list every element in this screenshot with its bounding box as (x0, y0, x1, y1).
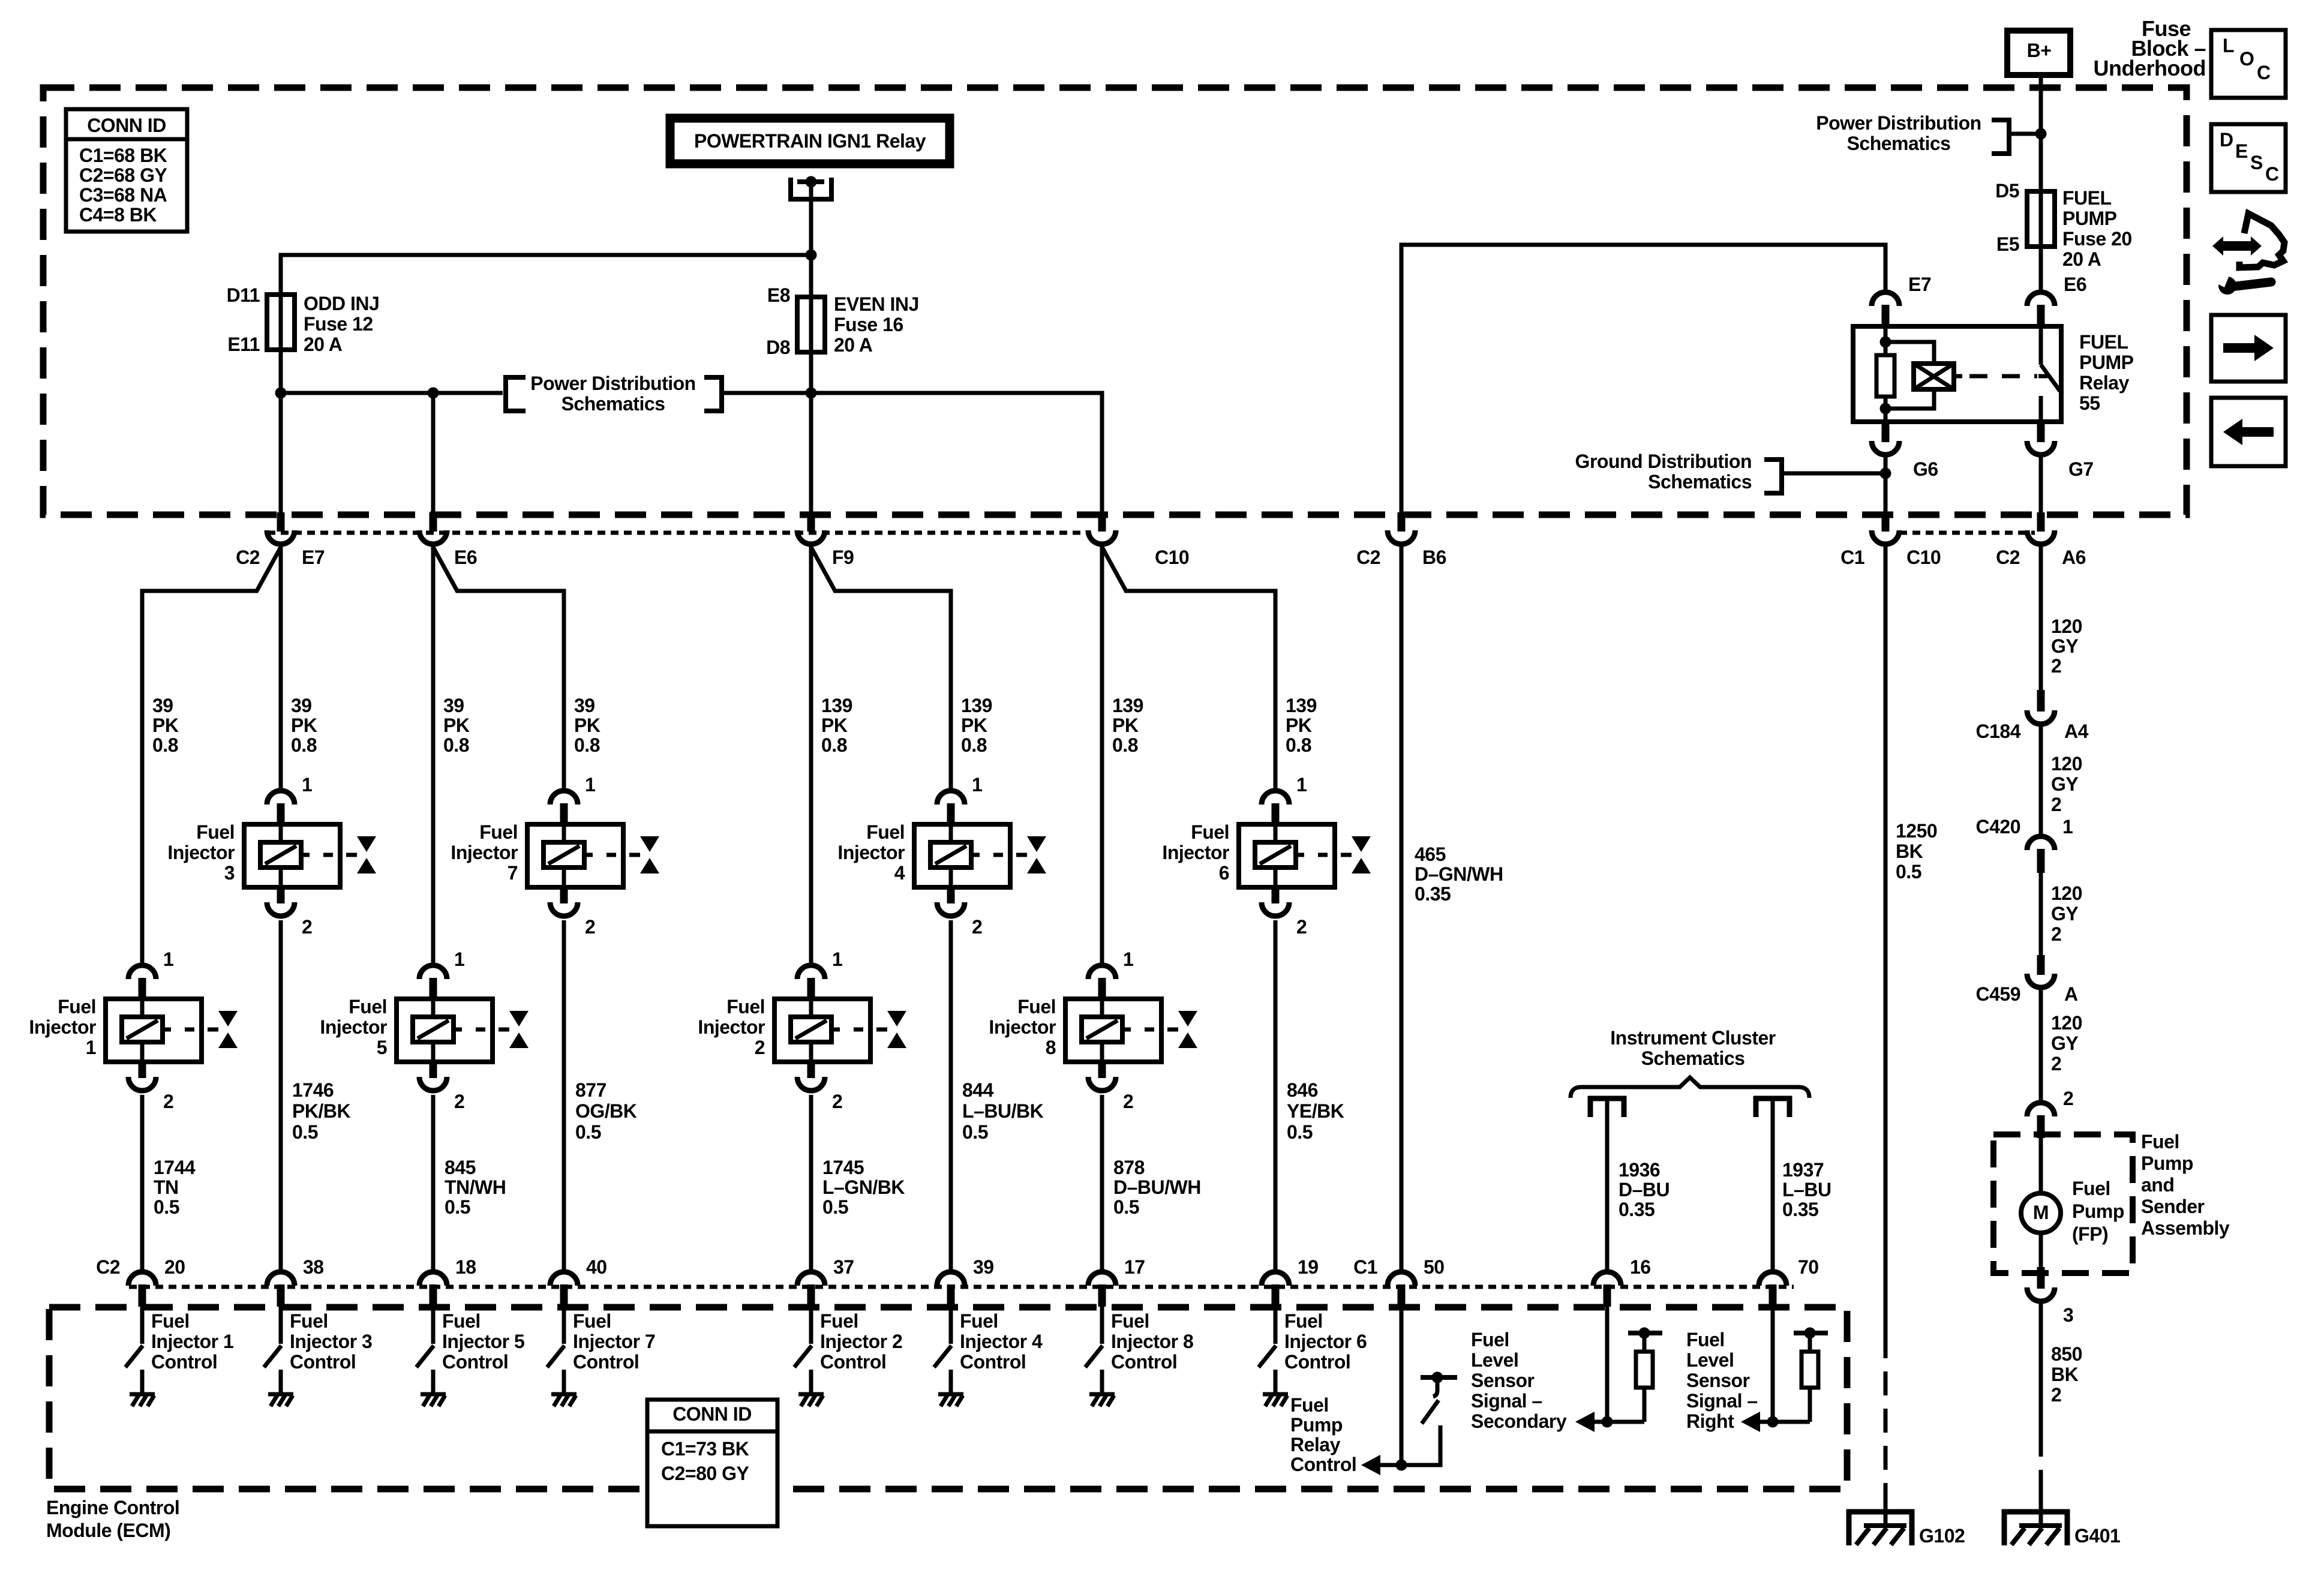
svg-text:0.5: 0.5 (154, 1196, 179, 1218)
svg-text:Injector 8: Injector 8 (1111, 1331, 1193, 1352)
wire A6 down (2039, 546, 2043, 691)
svg-text:C1=73 BK: C1=73 BK (661, 1438, 749, 1460)
connector C184 (2037, 690, 2045, 712)
svg-text:0.5: 0.5 (292, 1121, 318, 1143)
connector E6 (relay) (2027, 292, 2055, 306)
svg-text:846: 846 (1287, 1079, 1318, 1101)
svg-text:FUEL: FUEL (2062, 187, 2112, 209)
node ground distribution tap (1880, 468, 1891, 479)
svg-text:PK: PK (1286, 715, 1312, 736)
svg-text:0.8: 0.8 (1112, 734, 1138, 756)
svg-text:20 A: 20 A (304, 334, 343, 355)
svg-text:2: 2 (1123, 1091, 1133, 1112)
node E7 branch (275, 388, 287, 399)
switch: Fuel Injector 3 Control driver (279, 1307, 283, 1344)
svg-text:C459: C459 (1976, 983, 2021, 1005)
svg-text:POWERTRAIN IGN1 Relay: POWERTRAIN IGN1 Relay (694, 130, 926, 152)
svg-text:3: 3 (2063, 1304, 2073, 1326)
svg-text:0.8: 0.8 (152, 734, 178, 756)
svg-text:C2: C2 (236, 547, 260, 568)
svg-text:L–BU: L–BU (1782, 1179, 1831, 1200)
injector: Fuel Injector 7 (550, 791, 578, 804)
svg-text:D5: D5 (1995, 180, 2019, 202)
svg-text:Fuel: Fuel (290, 1310, 328, 1332)
svg-text:18: 18 (455, 1256, 476, 1278)
svg-text:Ground Distribution: Ground Distribution (1575, 451, 1752, 472)
switch: Fuel Injector 4 Control driver (949, 1307, 953, 1344)
svg-text:39: 39 (443, 695, 464, 716)
POWERTRAIN IGN1 Relay callout box (670, 118, 950, 164)
svg-text:39: 39 (574, 695, 595, 716)
svg-text:2: 2 (972, 916, 982, 938)
svg-text:CONN ID: CONN ID (87, 115, 166, 136)
wire to ECM (1771, 1101, 1775, 1274)
switch: Fuel Injector 7 Control driver (562, 1307, 566, 1344)
svg-text:Injector: Injector (1162, 842, 1229, 863)
svg-text:Engine Control: Engine Control (46, 1497, 179, 1518)
svg-text:PK: PK (152, 715, 179, 736)
svg-text:Fuel: Fuel (58, 996, 96, 1017)
svg-text:2: 2 (2051, 923, 2061, 945)
svg-text:PK/BK: PK/BK (292, 1100, 350, 1122)
svg-text:139: 139 (1286, 695, 1317, 716)
svg-text:Control: Control (1284, 1351, 1350, 1373)
relay switch (2039, 326, 2043, 365)
svg-text:0.5: 0.5 (822, 1196, 848, 1218)
connector row dotted line (fuse block C2) (268, 531, 1087, 535)
svg-text:E11: E11 (227, 334, 260, 355)
svg-text:0.8: 0.8 (574, 734, 600, 756)
svg-text:Control: Control (442, 1351, 508, 1373)
wire pump to G401 (2039, 1302, 2043, 1433)
ECM pin 70 (1759, 1272, 1786, 1286)
wire E7 to injector 3 (279, 546, 283, 793)
svg-text:2: 2 (832, 1091, 842, 1112)
svg-text:(FP): (FP) (2072, 1223, 2108, 1245)
svg-text:OG/BK: OG/BK (575, 1100, 637, 1122)
connector B6 (fuse block exit) (1398, 512, 1406, 532)
svg-text:E6: E6 (454, 547, 477, 568)
connector A6 (fuse block exit) (2037, 512, 2045, 532)
svg-text:0.8: 0.8 (821, 734, 847, 756)
svg-text:Fuel: Fuel (960, 1310, 998, 1332)
svg-text:C: C (2257, 62, 2271, 83)
svg-text:1936: 1936 (1619, 1159, 1660, 1181)
battery feed B+ (2007, 31, 2070, 75)
svg-text:38: 38 (303, 1256, 324, 1278)
ECM pin 20 (128, 1272, 156, 1286)
ECM pin 37 (797, 1272, 825, 1286)
svg-text:Level: Level (1471, 1349, 1518, 1371)
svg-text:Fuel: Fuel (196, 821, 235, 843)
switch: Fuel Injector 8 Control driver (1100, 1307, 1104, 1344)
svg-text:TN/WH: TN/WH (445, 1176, 506, 1198)
svg-text:C4=8 BK: C4=8 BK (79, 204, 157, 226)
ECM pin 39 (937, 1272, 965, 1286)
svg-text:Fuse 12: Fuse 12 (304, 313, 373, 335)
svg-text:1744: 1744 (154, 1157, 196, 1178)
svg-text:0.35: 0.35 (1619, 1199, 1655, 1220)
svg-text:A: A (2064, 983, 2078, 1005)
svg-text:Fuel: Fuel (1111, 1310, 1149, 1332)
svg-text:Power Distribution: Power Distribution (1816, 112, 1981, 134)
injector: Fuel Injector 5 (419, 965, 447, 979)
svg-text:E6: E6 (2064, 274, 2086, 295)
svg-text:C1: C1 (1353, 1256, 1377, 1278)
svg-text:D8: D8 (766, 337, 790, 358)
ECM pin 19 (1262, 1272, 1289, 1286)
svg-text:Injector 6: Injector 6 (1284, 1331, 1367, 1352)
wire injector to ECM (1274, 920, 1278, 1274)
CONN ID table (ECM) (647, 1400, 777, 1526)
svg-text:3: 3 (224, 862, 235, 884)
icon back arrow (2211, 398, 2286, 466)
svg-text:Instrument Cluster: Instrument Cluster (1610, 1027, 1776, 1049)
svg-text:50: 50 (1424, 1256, 1445, 1278)
svg-text:2: 2 (2063, 1088, 2073, 1109)
motor: Fuel Pump (FP) (2021, 1193, 2061, 1233)
svg-text:Fuel: Fuel (1686, 1329, 1725, 1350)
svg-text:0.8: 0.8 (1286, 734, 1311, 756)
node F9 branch (806, 388, 817, 399)
connector C10 (fuse block exit) (1882, 512, 1890, 532)
svg-text:139: 139 (1112, 695, 1143, 716)
wire ODD INJ fuse feed (281, 255, 811, 295)
connector ('C10', 88) (fuse block exit) (1098, 512, 1106, 532)
ground G401 (2002, 1509, 2007, 1545)
ECM connector dotted line (129, 1285, 1794, 1289)
connector C459 (2037, 955, 2045, 975)
svg-text:845: 845 (445, 1157, 476, 1178)
svg-text:ODD INJ: ODD INJ (304, 293, 379, 314)
svg-text:Fuel: Fuel (2141, 1131, 2179, 1152)
svg-text:C2: C2 (1996, 547, 2020, 568)
wire B6 to ECM pin 50 (1400, 546, 1404, 1274)
wire to ECM (1605, 1101, 1610, 1274)
svg-text:Injector: Injector (320, 1016, 387, 1038)
wire G6 down (1884, 455, 1888, 515)
svg-text:120: 120 (2051, 882, 2082, 904)
svg-text:Power Distribution: Power Distribution (530, 373, 695, 394)
svg-text:20: 20 (164, 1256, 185, 1278)
svg-text:Sender: Sender (2141, 1196, 2205, 1217)
svg-text:Control: Control (1111, 1351, 1177, 1373)
wire (2039, 725, 2043, 839)
svg-text:1: 1 (585, 774, 595, 795)
svg-text:Control: Control (573, 1351, 639, 1373)
svg-text:Secondary: Secondary (1471, 1410, 1567, 1432)
svg-text:5: 5 (377, 1037, 387, 1058)
svg-text:B6: B6 (1422, 547, 1446, 568)
svg-text:39: 39 (291, 695, 312, 716)
svg-text:40: 40 (586, 1256, 607, 1278)
svg-text:120: 120 (2051, 753, 2082, 775)
injector: Fuel Injector 1 (128, 965, 156, 979)
svg-text:Relay: Relay (2079, 372, 2130, 394)
ground G102 (1846, 1509, 1852, 1545)
injector: Fuel Injector 4 (937, 791, 965, 804)
terminal (instrument cluster) (1753, 1096, 1792, 1101)
switch: Fuel Injector 6 Control driver (1274, 1307, 1278, 1344)
fuel pump relay control driver (1400, 1307, 1404, 1465)
wire B+ down (2039, 75, 2043, 294)
fuel level sensor pull-up (1771, 1307, 1775, 1422)
svg-text:2: 2 (1296, 916, 1307, 938)
svg-text:877: 877 (575, 1079, 606, 1101)
svg-text:8: 8 (1046, 1037, 1056, 1058)
svg-text:Control: Control (960, 1351, 1026, 1373)
svg-text:E8: E8 (767, 284, 790, 306)
wire output bus (left) (281, 391, 503, 395)
svg-text:Injector: Injector (29, 1016, 96, 1038)
svg-text:D–GN/WH: D–GN/WH (1415, 863, 1503, 885)
svg-text:120: 120 (2051, 616, 2082, 637)
svg-text:GY: GY (2051, 773, 2078, 795)
svg-text:C2: C2 (96, 1256, 120, 1278)
wire F9 branch to injector 4 (811, 547, 951, 793)
fuse block - underhood dashed box (43, 88, 2187, 515)
svg-text:C2: C2 (1356, 547, 1380, 568)
connector E7 (relay) (1872, 292, 1899, 306)
wire injector to ECM (949, 920, 953, 1274)
svg-text:Fuel: Fuel (820, 1310, 858, 1332)
svg-text:YE/BK: YE/BK (1287, 1100, 1344, 1122)
wire branch to E6 (431, 393, 436, 515)
CONN ID table (fuse block) (66, 109, 187, 232)
svg-text:Fuel: Fuel (1284, 1310, 1323, 1332)
wire E7 branch to injector 1 (142, 547, 281, 968)
wire F9 to injector 2 (809, 546, 813, 968)
svg-text:Level: Level (1686, 1349, 1734, 1371)
svg-text:Schematics: Schematics (1648, 471, 1752, 493)
relay actuation dashed link (1969, 374, 2037, 379)
wire EVEN fuse through (809, 182, 813, 515)
svg-text:Fuse 16: Fuse 16 (834, 314, 903, 335)
svg-text:D11: D11 (227, 284, 260, 306)
brace (1571, 1077, 1809, 1098)
svg-text:Pump: Pump (1290, 1414, 1343, 1436)
svg-text:E5: E5 (1996, 233, 2019, 255)
svg-text:TN: TN (154, 1176, 179, 1198)
svg-text:S: S (2250, 152, 2263, 173)
svg-text:Fuel: Fuel (151, 1310, 190, 1332)
svg-text:0.5: 0.5 (962, 1121, 988, 1143)
svg-text:0.5: 0.5 (1113, 1196, 1139, 1218)
wire (2039, 873, 2043, 956)
svg-text:0.5: 0.5 (575, 1121, 601, 1143)
svg-text:A4: A4 (2064, 721, 2089, 742)
icon wrench/vehicle (2212, 236, 2262, 256)
svg-text:55: 55 (2079, 392, 2100, 414)
svg-text:Control: Control (1290, 1454, 1356, 1475)
injector: Fuel Injector 3 (267, 791, 295, 804)
svg-text:GY: GY (2051, 903, 2078, 924)
svg-text:Injector 5: Injector 5 (442, 1331, 524, 1352)
switch: Fuel Injector 1 Control driver (140, 1307, 145, 1344)
wire C10 branch to injector 6 (1102, 547, 1275, 793)
svg-text:A6: A6 (2062, 547, 2086, 568)
switch: Fuel Injector 2 Control driver (809, 1307, 813, 1344)
wire (2039, 988, 2043, 1105)
wire to B+ (2011, 132, 2041, 136)
svg-text:Fuse 20: Fuse 20 (2062, 228, 2132, 250)
svg-text:Injector 2: Injector 2 (820, 1331, 902, 1352)
svg-text:C10: C10 (1906, 547, 1941, 568)
svg-text:E7: E7 (1908, 274, 1931, 295)
svg-text:G401: G401 (2074, 1525, 2120, 1547)
svg-text:39: 39 (973, 1256, 994, 1278)
svg-text:PK: PK (574, 715, 600, 736)
svg-text:Fuel: Fuel (349, 996, 387, 1017)
svg-text:0.5: 0.5 (445, 1196, 470, 1218)
fuse ODD INJ Fuse 12 (D11/E11) (267, 295, 295, 350)
svg-text:Schematics: Schematics (562, 393, 665, 415)
ECM pin 50 (1388, 1272, 1415, 1286)
svg-text:Fuel: Fuel (2072, 1178, 2110, 1199)
svg-text:E: E (2235, 140, 2248, 162)
wire injector to ECM (279, 920, 283, 1274)
svg-text:0.5: 0.5 (1896, 861, 1921, 882)
svg-text:2: 2 (585, 916, 595, 938)
svg-text:19: 19 (1298, 1256, 1319, 1278)
wire injector to ECM (431, 1095, 436, 1274)
svg-text:C1: C1 (1840, 547, 1864, 568)
wire injector to ECM (1100, 1095, 1104, 1274)
fuel level sensor pull-up (1605, 1307, 1610, 1422)
svg-text:2: 2 (302, 916, 312, 938)
svg-text:PK: PK (961, 715, 987, 736)
svg-text:E7: E7 (302, 547, 325, 568)
svg-text:Sensor: Sensor (1686, 1370, 1750, 1391)
svg-text:Signal –: Signal – (1686, 1390, 1758, 1412)
wire injector to ECM (140, 1095, 145, 1274)
svg-text:70: 70 (1798, 1256, 1819, 1278)
relay coil branch (1884, 326, 1888, 355)
svg-text:BK: BK (2051, 1364, 2079, 1385)
icon forward arrow (2211, 315, 2286, 382)
svg-text:Fuel: Fuel (479, 821, 518, 843)
svg-text:and: and (2141, 1174, 2174, 1196)
svg-text:C2=68 GY: C2=68 GY (79, 164, 167, 186)
svg-text:Relay: Relay (1290, 1434, 1341, 1455)
injector: Fuel Injector 8 (1088, 965, 1116, 979)
svg-text:1: 1 (832, 948, 842, 970)
switch: Fuel Injector 5 Control driver (431, 1307, 436, 1344)
connector F9 (fuse block exit) (807, 512, 815, 532)
svg-text:39: 39 (152, 695, 173, 716)
svg-text:0.5: 0.5 (1287, 1121, 1313, 1143)
node E6 branch (428, 388, 439, 399)
svg-text:20 A: 20 A (2062, 248, 2101, 270)
svg-text:C420: C420 (1976, 816, 2021, 837)
svg-text:844: 844 (962, 1079, 994, 1101)
svg-text:2: 2 (2051, 655, 2061, 677)
svg-text:Fuel: Fuel (1017, 996, 1056, 1017)
svg-text:Fuel: Fuel (1290, 1394, 1329, 1416)
svg-text:2: 2 (2051, 794, 2061, 815)
svg-text:Assembly: Assembly (2141, 1217, 2230, 1239)
wire output bus (right) (724, 393, 1102, 515)
wire C10 to G102 (1884, 546, 1888, 1334)
svg-text:G6: G6 (1913, 458, 1938, 480)
svg-text:Injector: Injector (451, 842, 518, 863)
svg-text:Schematics: Schematics (1641, 1047, 1745, 1069)
svg-text:1: 1 (302, 774, 312, 795)
svg-text:G102: G102 (1919, 1525, 1965, 1547)
svg-text:16: 16 (1630, 1256, 1651, 1278)
ECM dashed box (49, 1307, 1847, 1489)
svg-text:Sensor: Sensor (1471, 1370, 1535, 1391)
node power distribution tap (2035, 128, 2047, 140)
svg-text:1745: 1745 (822, 1157, 864, 1178)
svg-text:L–GN/BK: L–GN/BK (822, 1176, 905, 1198)
wire fuel pump relay coil feed (B6 to E7) (1401, 245, 1885, 515)
ECM pin 40 (550, 1272, 578, 1286)
svg-text:1: 1 (1296, 774, 1307, 795)
svg-text:C1=68 BK: C1=68 BK (79, 145, 167, 166)
svg-text:465: 465 (1415, 843, 1446, 865)
svg-text:EVEN INJ: EVEN INJ (834, 293, 919, 315)
svg-text:C: C (2265, 163, 2279, 185)
svg-text:PK: PK (443, 715, 470, 736)
icon LOC (2211, 30, 2286, 98)
connector E7 (fuse block exit) (277, 512, 285, 532)
svg-text:4: 4 (894, 862, 905, 884)
svg-text:850: 850 (2051, 1343, 2082, 1365)
svg-text:B+: B+ (2027, 40, 2052, 61)
svg-text:1746: 1746 (292, 1079, 334, 1101)
svg-text:PK: PK (291, 715, 317, 736)
svg-text:D–BU/WH: D–BU/WH (1113, 1176, 1201, 1198)
svg-text:F9: F9 (832, 547, 854, 568)
svg-text:D: D (2220, 129, 2233, 151)
injector: Fuel Injector 6 (1262, 791, 1289, 804)
svg-text:2: 2 (755, 1037, 765, 1058)
svg-text:Control: Control (151, 1351, 217, 1373)
svg-text:139: 139 (821, 695, 852, 716)
svg-text:1: 1 (1123, 948, 1133, 970)
svg-text:Injector 1: Injector 1 (151, 1331, 233, 1352)
svg-text:Injector: Injector (698, 1016, 765, 1038)
node ODD feed junction (806, 250, 817, 261)
svg-text:Fuel: Fuel (726, 996, 765, 1017)
svg-text:BK: BK (1896, 840, 1923, 862)
svg-text:Fuel: Fuel (1191, 821, 1229, 843)
ECM pin 16 (1593, 1272, 1621, 1286)
svg-text:1: 1 (163, 948, 173, 970)
icon DESC (2211, 124, 2286, 192)
svg-text:GY: GY (2051, 1032, 2078, 1054)
svg-text:L: L (2223, 35, 2234, 56)
relay coil (1914, 364, 1954, 389)
svg-text:Injector 4: Injector 4 (960, 1331, 1043, 1352)
svg-text:Injector: Injector (167, 842, 235, 863)
injector: Fuel Injector 2 (797, 965, 825, 979)
svg-text:1937: 1937 (1782, 1159, 1824, 1181)
svg-text:PUMP: PUMP (2079, 352, 2134, 373)
svg-text:Injector 3: Injector 3 (290, 1331, 372, 1352)
wire injector to ECM (809, 1095, 813, 1274)
svg-text:FUEL: FUEL (2079, 331, 2128, 353)
wire ODD fuse through (279, 255, 283, 515)
relay FUEL PUMP Relay 55 (1853, 326, 2061, 422)
svg-text:0.35: 0.35 (1415, 883, 1451, 905)
relay cavity footprint (791, 178, 831, 199)
ECM pin 18 (419, 1272, 447, 1286)
svg-text:C184: C184 (1976, 721, 2021, 742)
wire (2039, 1138, 2043, 1194)
svg-text:0.8: 0.8 (961, 734, 987, 756)
